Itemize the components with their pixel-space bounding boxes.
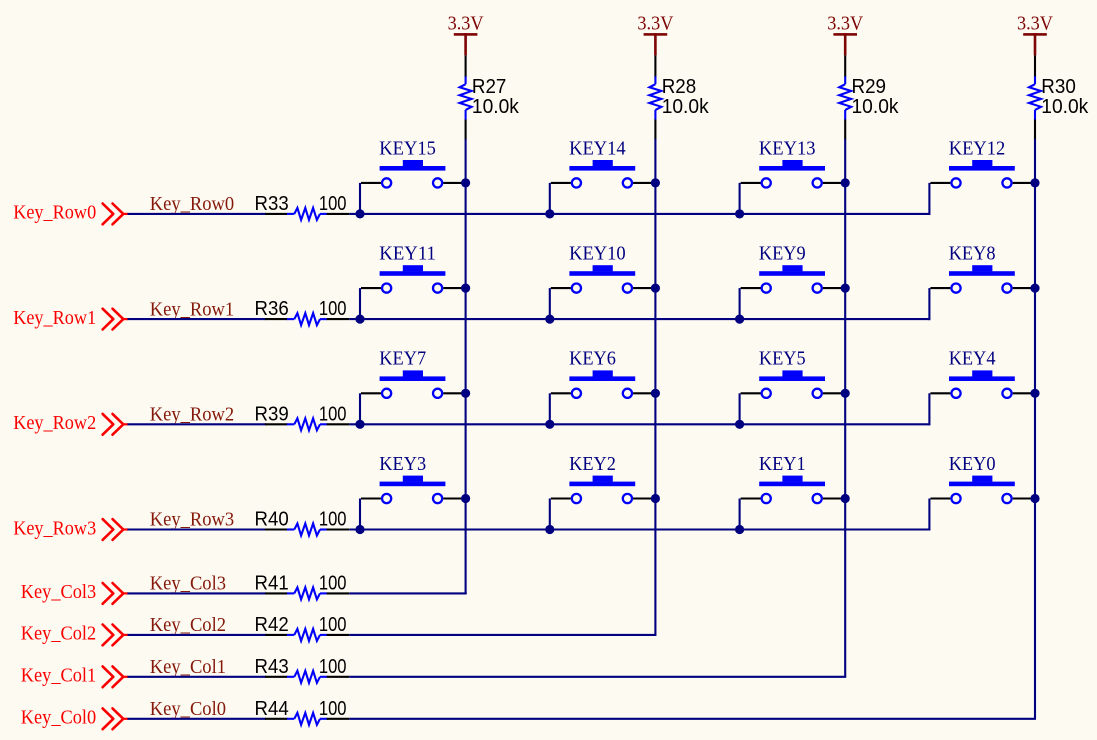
- svg-text:100: 100: [319, 698, 347, 720]
- svg-text:Key_Col0: Key_Col0: [150, 699, 226, 720]
- svg-text:100: 100: [319, 509, 347, 531]
- pushbutton KEY8: [930, 244, 1035, 293]
- svg-text:Key_Row0: Key_Row0: [150, 194, 234, 215]
- junction KEY5/row: [735, 420, 744, 429]
- svg-text:R27: R27: [472, 76, 507, 98]
- svg-text:10.0k: 10.0k: [472, 96, 520, 118]
- wire column bus 1 vertical: [465, 139, 467, 593]
- svg-text:KEY8: KEY8: [949, 244, 996, 265]
- junction KEY2/row: [545, 525, 554, 534]
- wire Key_Col0: R44 to column bus 4: [349, 718, 1036, 720]
- junction KEY11 right contact / column bus: [461, 284, 470, 293]
- junction KEY1 right contact / column bus: [841, 494, 850, 503]
- wire riser KEY7 left contact to row Key_Row2: [359, 393, 361, 424]
- port Key_Col3: [21, 582, 128, 604]
- junction KEY14/row: [545, 209, 554, 218]
- wire Key_Row3: R40 to KEY risers: [349, 528, 929, 530]
- power 3.3V (column 2): [637, 14, 673, 56]
- power 3.3V (column 3): [827, 14, 863, 56]
- pushbutton KEY14: [551, 138, 656, 187]
- resistor R33 100 (series): [255, 193, 350, 220]
- wire Key_Row3: riser to KEY0 (row end corner): [928, 499, 930, 531]
- wire riser KEY5 left contact to row Key_Row2: [739, 393, 741, 424]
- svg-text:KEY7: KEY7: [379, 349, 426, 370]
- svg-text:R43: R43: [255, 656, 289, 678]
- svg-text:10.0k: 10.0k: [852, 96, 900, 118]
- svg-text:KEY13: KEY13: [759, 138, 816, 159]
- junction KEY10/row: [545, 315, 554, 324]
- svg-text:KEY11: KEY11: [379, 244, 436, 265]
- port Key_Col1: [21, 666, 128, 688]
- svg-text:Key_Col3: Key_Col3: [150, 574, 226, 595]
- wire Key_Col3: R41 to column bus 1: [349, 592, 466, 594]
- pushbutton KEY2: [551, 454, 656, 503]
- wire Key_Row2: riser to KEY4 (row end corner): [928, 393, 930, 425]
- svg-text:KEY9: KEY9: [759, 244, 806, 265]
- svg-text:KEY3: KEY3: [379, 454, 426, 475]
- svg-text:KEY6: KEY6: [569, 349, 616, 370]
- junction KEY6 right contact / column bus: [651, 389, 660, 398]
- pushbutton KEY1: [741, 454, 846, 503]
- port Key_Col2: [21, 624, 128, 646]
- resistor R30 10.0k pull-up: [1029, 55, 1089, 139]
- resistor R40 100 (series): [255, 509, 350, 536]
- junction KEY0 right contact / column bus: [1030, 494, 1039, 503]
- junction KEY14 right contact / column bus: [651, 178, 660, 187]
- wire Key_Col2: R42 to column bus 2: [349, 634, 656, 636]
- pushbutton KEY4: [930, 349, 1035, 398]
- pushbutton KEY13: [741, 138, 846, 187]
- pushbutton KEY9: [741, 244, 846, 293]
- svg-text:R30: R30: [1041, 76, 1076, 98]
- wire riser KEY14 left contact to row Key_Row0: [549, 183, 551, 214]
- junction KEY5 right contact / column bus: [841, 389, 850, 398]
- resistor R42 100 (series): [255, 614, 350, 641]
- svg-text:100: 100: [319, 193, 347, 215]
- resistor R28 10.0k pull-up: [649, 55, 709, 139]
- svg-text:KEY5: KEY5: [759, 349, 806, 370]
- svg-text:100: 100: [319, 614, 347, 636]
- svg-text:KEY14: KEY14: [569, 138, 626, 159]
- wire Key_Col2: port to R42: [128, 634, 267, 636]
- pushbutton KEY3: [361, 454, 466, 503]
- junction KEY6/row: [545, 420, 554, 429]
- svg-text:Key_Row2: Key_Row2: [13, 413, 96, 434]
- junction KEY12 right contact / column bus: [1030, 178, 1039, 187]
- svg-text:KEY1: KEY1: [759, 454, 806, 475]
- svg-text:KEY10: KEY10: [569, 244, 626, 265]
- port Key_Col0: [21, 708, 128, 730]
- svg-text:R41: R41: [255, 572, 289, 594]
- svg-text:Key_Row1: Key_Row1: [150, 299, 234, 320]
- pushbutton KEY15: [361, 138, 466, 187]
- wire riser KEY10 left contact to row Key_Row1: [549, 288, 551, 319]
- svg-text:KEY2: KEY2: [569, 454, 616, 475]
- svg-text:R40: R40: [255, 509, 289, 531]
- svg-text:100: 100: [319, 298, 347, 320]
- pushbutton KEY12: [930, 138, 1035, 187]
- junction KEY8 right contact / column bus: [1030, 284, 1039, 293]
- svg-text:10.0k: 10.0k: [1041, 96, 1089, 118]
- resistor R39 100 (series): [255, 403, 350, 430]
- wire riser KEY15 left contact to row Key_Row0: [359, 183, 361, 214]
- svg-text:Key_Row3: Key_Row3: [13, 518, 96, 539]
- junction KEY3 right contact / column bus: [461, 494, 470, 503]
- wire Key_Row0: R33 to KEY risers: [349, 213, 929, 215]
- junction KEY1/row: [735, 525, 744, 534]
- svg-text:KEY12: KEY12: [949, 138, 1006, 159]
- resistor R44 100 (series): [255, 698, 350, 725]
- svg-text:100: 100: [319, 403, 347, 425]
- svg-text:Key_Row2: Key_Row2: [150, 405, 234, 426]
- junction KEY7 right contact / column bus: [461, 389, 470, 398]
- svg-text:R44: R44: [255, 698, 289, 720]
- wire Key_Col3: port to R41: [128, 592, 267, 594]
- power 3.3V (column 4): [1017, 14, 1053, 56]
- pushbutton KEY6: [551, 349, 656, 398]
- wire Key_Row3: port to R40: [128, 528, 267, 530]
- wire Key_Col0: port to R44: [128, 718, 267, 720]
- junction KEY2 right contact / column bus: [651, 494, 660, 503]
- resistor R29 10.0k pull-up: [839, 55, 899, 139]
- svg-text:3.3V: 3.3V: [448, 14, 484, 35]
- pushbutton KEY11: [361, 244, 466, 293]
- junction KEY3/row: [355, 525, 364, 534]
- svg-text:KEY4: KEY4: [949, 349, 996, 370]
- svg-text:3.3V: 3.3V: [1017, 14, 1053, 35]
- port Key_Row0: [13, 203, 128, 225]
- svg-text:Key_Row0: Key_Row0: [13, 203, 96, 224]
- wire column bus 3 vertical: [844, 139, 846, 677]
- svg-text:100: 100: [319, 656, 347, 678]
- svg-text:3.3V: 3.3V: [827, 14, 863, 35]
- junction KEY11/row: [355, 315, 364, 324]
- wire riser KEY3 left contact to row Key_Row3: [359, 499, 361, 530]
- wire Key_Row1: R36 to KEY risers: [349, 318, 929, 320]
- junction KEY13 right contact / column bus: [841, 178, 850, 187]
- wire Key_Col1: port to R43: [128, 676, 267, 678]
- wire riser KEY11 left contact to row Key_Row1: [359, 288, 361, 319]
- svg-text:KEY0: KEY0: [949, 454, 996, 475]
- junction KEY9 right contact / column bus: [841, 284, 850, 293]
- svg-text:R28: R28: [662, 76, 697, 98]
- junction KEY7/row: [355, 420, 364, 429]
- svg-text:100: 100: [319, 572, 347, 594]
- junction KEY10 right contact / column bus: [651, 284, 660, 293]
- svg-text:Key_Col1: Key_Col1: [21, 666, 96, 687]
- junction KEY15/row: [355, 209, 364, 218]
- svg-text:Key_Col1: Key_Col1: [150, 657, 226, 678]
- svg-text:R29: R29: [852, 76, 887, 98]
- pushbutton KEY7: [361, 349, 466, 398]
- pushbutton KEY0: [930, 454, 1035, 503]
- port Key_Row3: [13, 518, 128, 540]
- resistor R27 10.0k pull-up: [460, 55, 520, 139]
- wire riser KEY6 left contact to row Key_Row2: [549, 393, 551, 424]
- wire Key_Row1: port to R36: [128, 318, 267, 320]
- svg-text:3.3V: 3.3V: [637, 14, 673, 35]
- wire riser KEY1 left contact to row Key_Row3: [739, 499, 741, 530]
- svg-text:Key_Col2: Key_Col2: [21, 624, 96, 645]
- junction KEY4 right contact / column bus: [1030, 389, 1039, 398]
- port Key_Row1: [13, 308, 128, 330]
- wire Key_Col1: R43 to column bus 3: [349, 676, 846, 678]
- wire column bus 4 vertical: [1034, 139, 1036, 719]
- power 3.3V (column 1): [448, 14, 484, 56]
- svg-text:R33: R33: [255, 193, 289, 215]
- wire Key_Row0: port to R33: [128, 213, 267, 215]
- resistor R41 100 (series): [255, 572, 350, 599]
- resistor R36 100 (series): [255, 298, 350, 325]
- svg-text:R36: R36: [255, 298, 289, 320]
- svg-text:R39: R39: [255, 403, 289, 425]
- svg-text:R42: R42: [255, 614, 289, 636]
- junction KEY13/row: [735, 209, 744, 218]
- wire Key_Row2: R39 to KEY risers: [349, 423, 929, 425]
- resistor R43 100 (series): [255, 656, 350, 683]
- wire riser KEY13 left contact to row Key_Row0: [739, 183, 741, 214]
- svg-text:Key_Col2: Key_Col2: [150, 615, 226, 636]
- svg-text:KEY15: KEY15: [379, 138, 436, 159]
- wire Key_Row1: riser to KEY8 (row end corner): [928, 288, 930, 320]
- wire column bus 2 vertical: [654, 139, 656, 635]
- junction KEY15 right contact / column bus: [461, 178, 470, 187]
- junction KEY9/row: [735, 315, 744, 324]
- svg-text:Key_Row3: Key_Row3: [150, 510, 234, 531]
- svg-text:Key_Col3: Key_Col3: [21, 582, 96, 603]
- wire riser KEY2 left contact to row Key_Row3: [549, 499, 551, 530]
- wire Key_Row0: riser to KEY12 (row end corner): [928, 183, 930, 215]
- svg-text:Key_Row1: Key_Row1: [13, 308, 96, 329]
- pushbutton KEY10: [551, 244, 656, 293]
- pushbutton KEY5: [741, 349, 846, 398]
- wire Key_Row2: port to R39: [128, 423, 267, 425]
- port Key_Row2: [13, 413, 128, 435]
- wire riser KEY9 left contact to row Key_Row1: [739, 288, 741, 319]
- svg-text:10.0k: 10.0k: [662, 96, 710, 118]
- svg-text:Key_Col0: Key_Col0: [21, 708, 96, 729]
